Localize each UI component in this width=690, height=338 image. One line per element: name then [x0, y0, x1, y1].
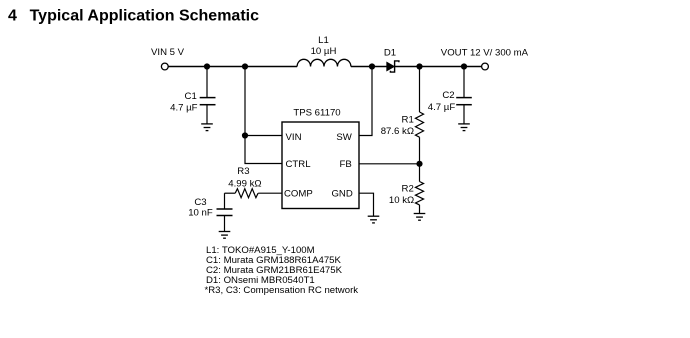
junction SW node — [369, 63, 375, 69]
wire GND pin — [359, 193, 374, 216]
capacitor C2 — [428, 67, 472, 124]
ground (GND pin) — [368, 216, 380, 223]
svg-text:10 nF: 10 nF — [188, 207, 213, 218]
resistor R3 — [225, 166, 283, 198]
ground (C2) — [458, 124, 470, 131]
junction VIN riser node — [242, 63, 248, 69]
svg-text:FB: FB — [340, 159, 352, 170]
svg-text:4.7 µF: 4.7 µF — [428, 102, 456, 113]
wire L1 to D1 — [351, 66, 387, 68]
svg-text:D1: D1 — [384, 48, 396, 59]
wire VIN riser — [244, 67, 246, 136]
svg-text:10 µH: 10 µH — [311, 46, 337, 57]
svg-text:C2: C2 — [442, 90, 454, 101]
svg-text:L1: L1 — [318, 35, 329, 46]
wire FB net — [359, 163, 420, 165]
junction C1 node — [204, 63, 210, 69]
svg-text:R1: R1 — [402, 115, 414, 126]
svg-text:4.7 µF: 4.7 µF — [170, 102, 198, 113]
svg-text:TPS 61170: TPS 61170 — [293, 107, 340, 118]
wire D1 to VOUT terminal — [395, 66, 482, 68]
svg-text:VIN 5 V: VIN 5 V — [151, 47, 185, 58]
svg-text:VOUT 12 V/ 300 mA: VOUT 12 V/ 300 mA — [441, 47, 529, 58]
ground (C1) — [201, 124, 213, 131]
svg-text:Typical Application Schematic: Typical Application Schematic — [30, 8, 259, 25]
svg-text:87.6 kΩ: 87.6 kΩ — [381, 126, 414, 137]
terminal VIN — [161, 63, 168, 70]
junction VIN/CTRL node — [242, 132, 248, 138]
wire SW pin riser — [359, 67, 372, 136]
svg-text:*R3, C3: Compensation RC netwo: *R3, C3: Compensation RC network — [205, 285, 359, 296]
inductor L1 — [297, 35, 351, 66]
svg-text:10 kΩ: 10 kΩ — [389, 195, 414, 206]
svg-text:SW: SW — [336, 132, 352, 143]
capacitor C3 — [188, 193, 232, 231]
ground (R2) — [414, 214, 426, 221]
svg-text:4: 4 — [8, 8, 17, 25]
junction FB node — [416, 161, 422, 167]
svg-text:R3: R3 — [237, 166, 249, 177]
svg-text:VIN: VIN — [286, 132, 302, 143]
resistor R2 — [389, 164, 424, 214]
svg-text:GND: GND — [331, 188, 352, 199]
svg-text:R2: R2 — [402, 184, 414, 195]
terminal VOUT — [482, 63, 489, 70]
svg-text:C1: C1 — [185, 91, 197, 102]
junction R1 node — [416, 63, 422, 69]
resistor R1 — [381, 67, 424, 164]
IC U1 TPS61170 — [282, 107, 359, 208]
wire CTRL pin — [245, 136, 282, 164]
svg-text:CTRL: CTRL — [286, 159, 312, 170]
wire input rail — [168, 66, 297, 68]
capacitor C1 — [170, 67, 215, 124]
wire VIN pin — [245, 135, 282, 137]
ground (C3) — [219, 232, 231, 239]
svg-text:COMP: COMP — [284, 188, 313, 199]
diode D1 (schottky) — [384, 48, 399, 73]
junction C2 node — [461, 63, 467, 69]
